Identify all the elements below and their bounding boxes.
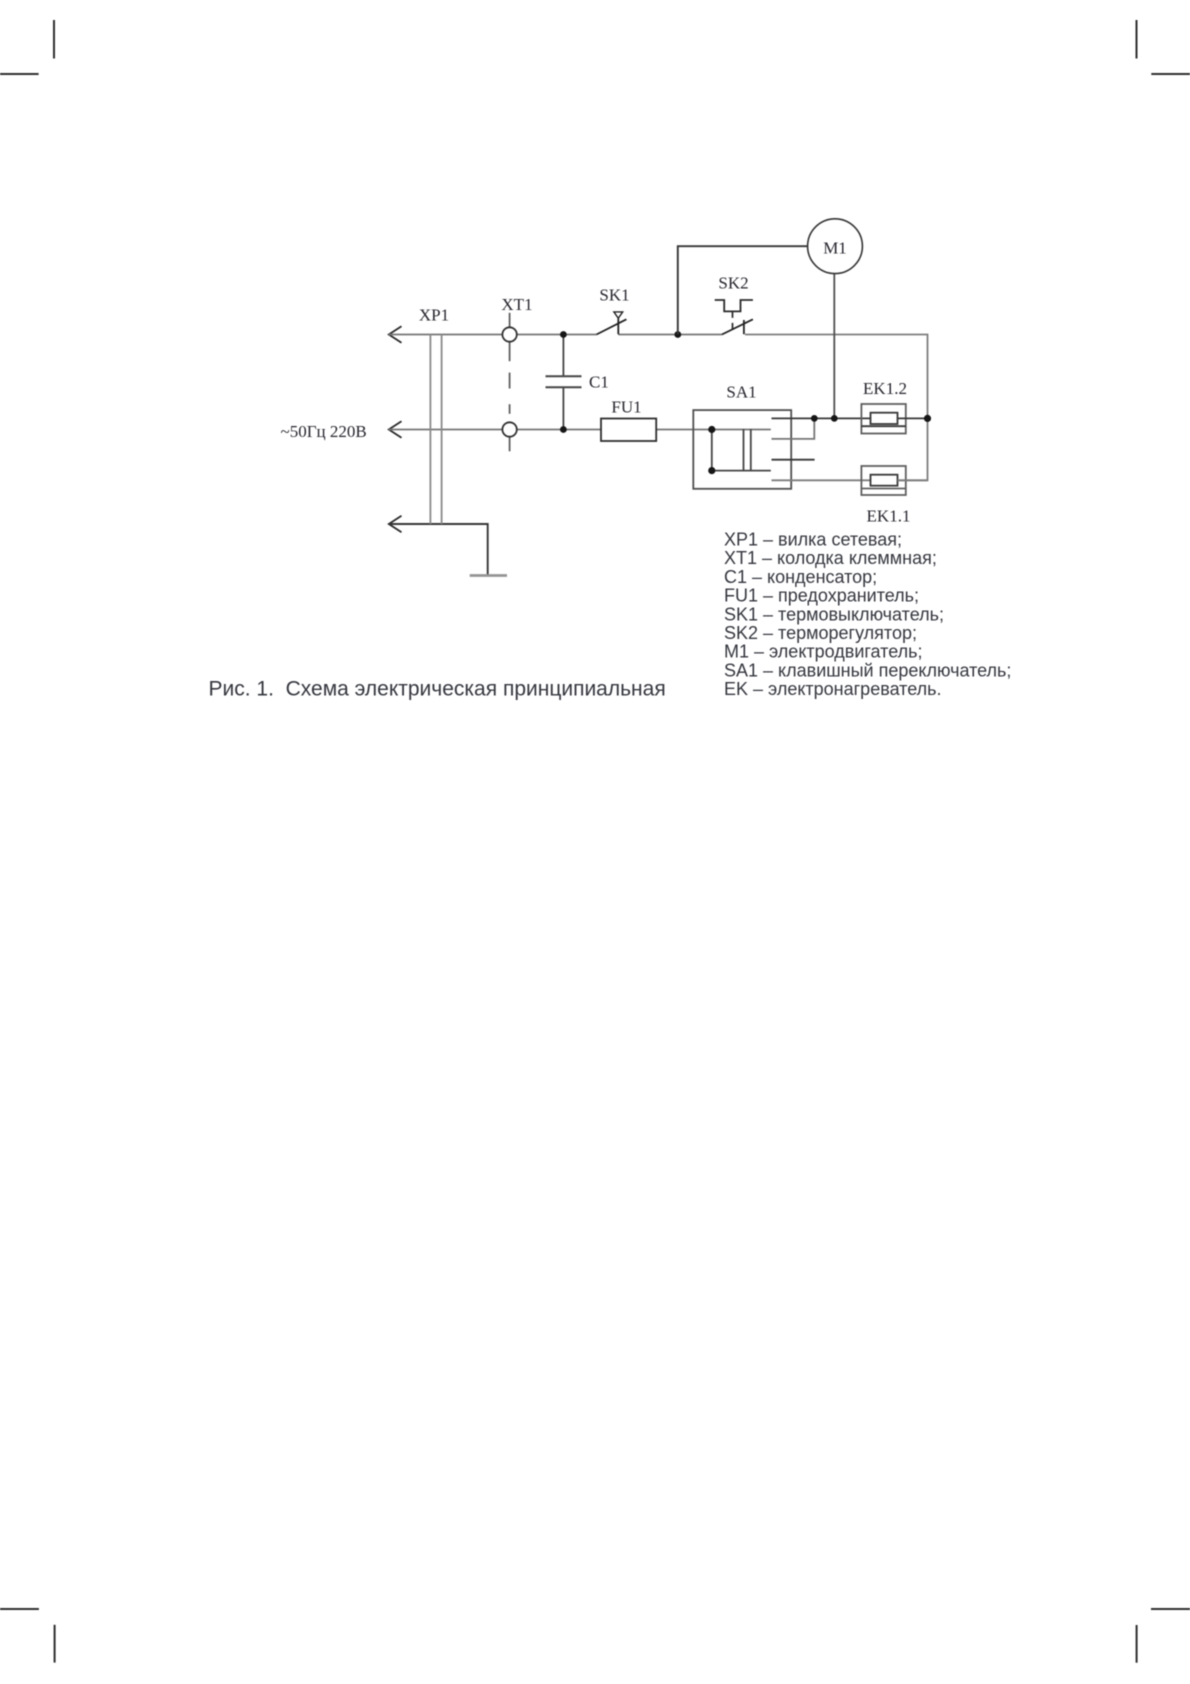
svg-text:EK1.2: EK1.2 [863, 379, 907, 398]
heater EK1.1 [861, 466, 905, 495]
SA1 contact 4 wire [772, 479, 871, 481]
crop mark top-left [0, 20, 54, 74]
SA1 contact 3 wire [772, 459, 815, 461]
wire row A left [389, 334, 597, 336]
SA1 contact 2 wire [772, 418, 815, 439]
svg-text:EK – электронагреватель.: EK – электронагреватель. [724, 679, 942, 699]
node dot A-M1 [674, 331, 681, 338]
svg-text:XP1 – вилка сетевая;: XP1 – вилка сетевая; [724, 530, 902, 550]
svg-text:Рис. 1. Схема электрическая п: Рис. 1. Схема электрическая принципиальн… [209, 677, 666, 700]
motor M1 circle [808, 219, 863, 274]
terminal block XT1 dashed line [509, 313, 511, 452]
node dot A-C1 [560, 331, 567, 338]
thermostat SK2 bracket [715, 300, 753, 311]
svg-text:XT1: XT1 [501, 295, 532, 314]
thermal switch SK1 [597, 312, 627, 335]
wire row B [389, 429, 601, 431]
SA1 internal jumper [712, 430, 771, 471]
capacitor C1 [546, 335, 582, 430]
node dot M1-lead [831, 415, 838, 422]
thermostat SK2 contact [722, 319, 753, 334]
svg-text:SK1: SK1 [599, 286, 629, 305]
terminal XT1 circle top [502, 327, 516, 341]
wire row C to ground [389, 524, 488, 576]
switch SA1 box [693, 410, 791, 489]
arrow line 2 [389, 421, 402, 437]
SA1 contact 1 wire [772, 417, 871, 419]
svg-text:FU1 – предохранитель;: FU1 – предохранитель; [724, 586, 919, 606]
svg-text:EK1.1: EK1.1 [867, 507, 911, 526]
svg-text:SK2: SK2 [718, 274, 748, 293]
fuse FU1 [601, 419, 656, 442]
svg-text:XT1 – колодка клеммная;: XT1 – колодка клеммная; [724, 548, 937, 568]
svg-text:M1: M1 [823, 239, 847, 258]
svg-text:SA1: SA1 [726, 383, 756, 402]
svg-text:FU1: FU1 [611, 398, 641, 417]
svg-text:~50Гц 220В: ~50Гц 220В [281, 422, 367, 441]
heater EK1.2 [861, 404, 905, 434]
ground bar [470, 574, 507, 577]
motor M1 bottom lead [833, 274, 835, 419]
SA1 rocker bars [744, 429, 751, 471]
svg-text:M1 – электродвигатель;: M1 – электродвигатель; [724, 642, 923, 662]
SA1 internal node top [708, 426, 715, 433]
crop mark bottom-right [1137, 1609, 1190, 1663]
motor M1 branch wire [678, 246, 808, 334]
node dot contact2 [811, 415, 818, 422]
svg-text:C1: C1 [589, 373, 609, 392]
svg-text:SK2 – терморегулятор;: SK2 – терморегулятор; [724, 623, 917, 643]
node dot B-C1 [560, 426, 567, 433]
wire row A right and right vertical [745, 335, 928, 481]
svg-text:XP1: XP1 [419, 306, 449, 325]
arrow line 3 [389, 516, 402, 532]
wire EK1.2 right [898, 417, 928, 419]
arrow line 1 [389, 326, 402, 342]
wire EK1.1 right [898, 479, 928, 481]
svg-text:SA1 – клавишный переключатель;: SA1 – клавишный переключатель; [724, 660, 1011, 680]
svg-text:SK1 – термовыключатель;: SK1 – термовыключатель; [724, 604, 944, 624]
crop mark bottom-left [0, 1609, 55, 1663]
plug XP1 [430, 335, 441, 525]
wire row B to SA1 [656, 429, 771, 431]
wire row A middle [618, 334, 722, 336]
SA1 internal node bottom [708, 467, 715, 474]
crop mark top-right [1137, 20, 1190, 74]
node dot EK1.2 right [924, 415, 931, 422]
thermostat SK2 dashed link [732, 311, 734, 331]
terminal XT1 circle bottom [502, 422, 516, 436]
svg-text:C1 – конденсатор;: C1 – конденсатор; [724, 567, 877, 587]
